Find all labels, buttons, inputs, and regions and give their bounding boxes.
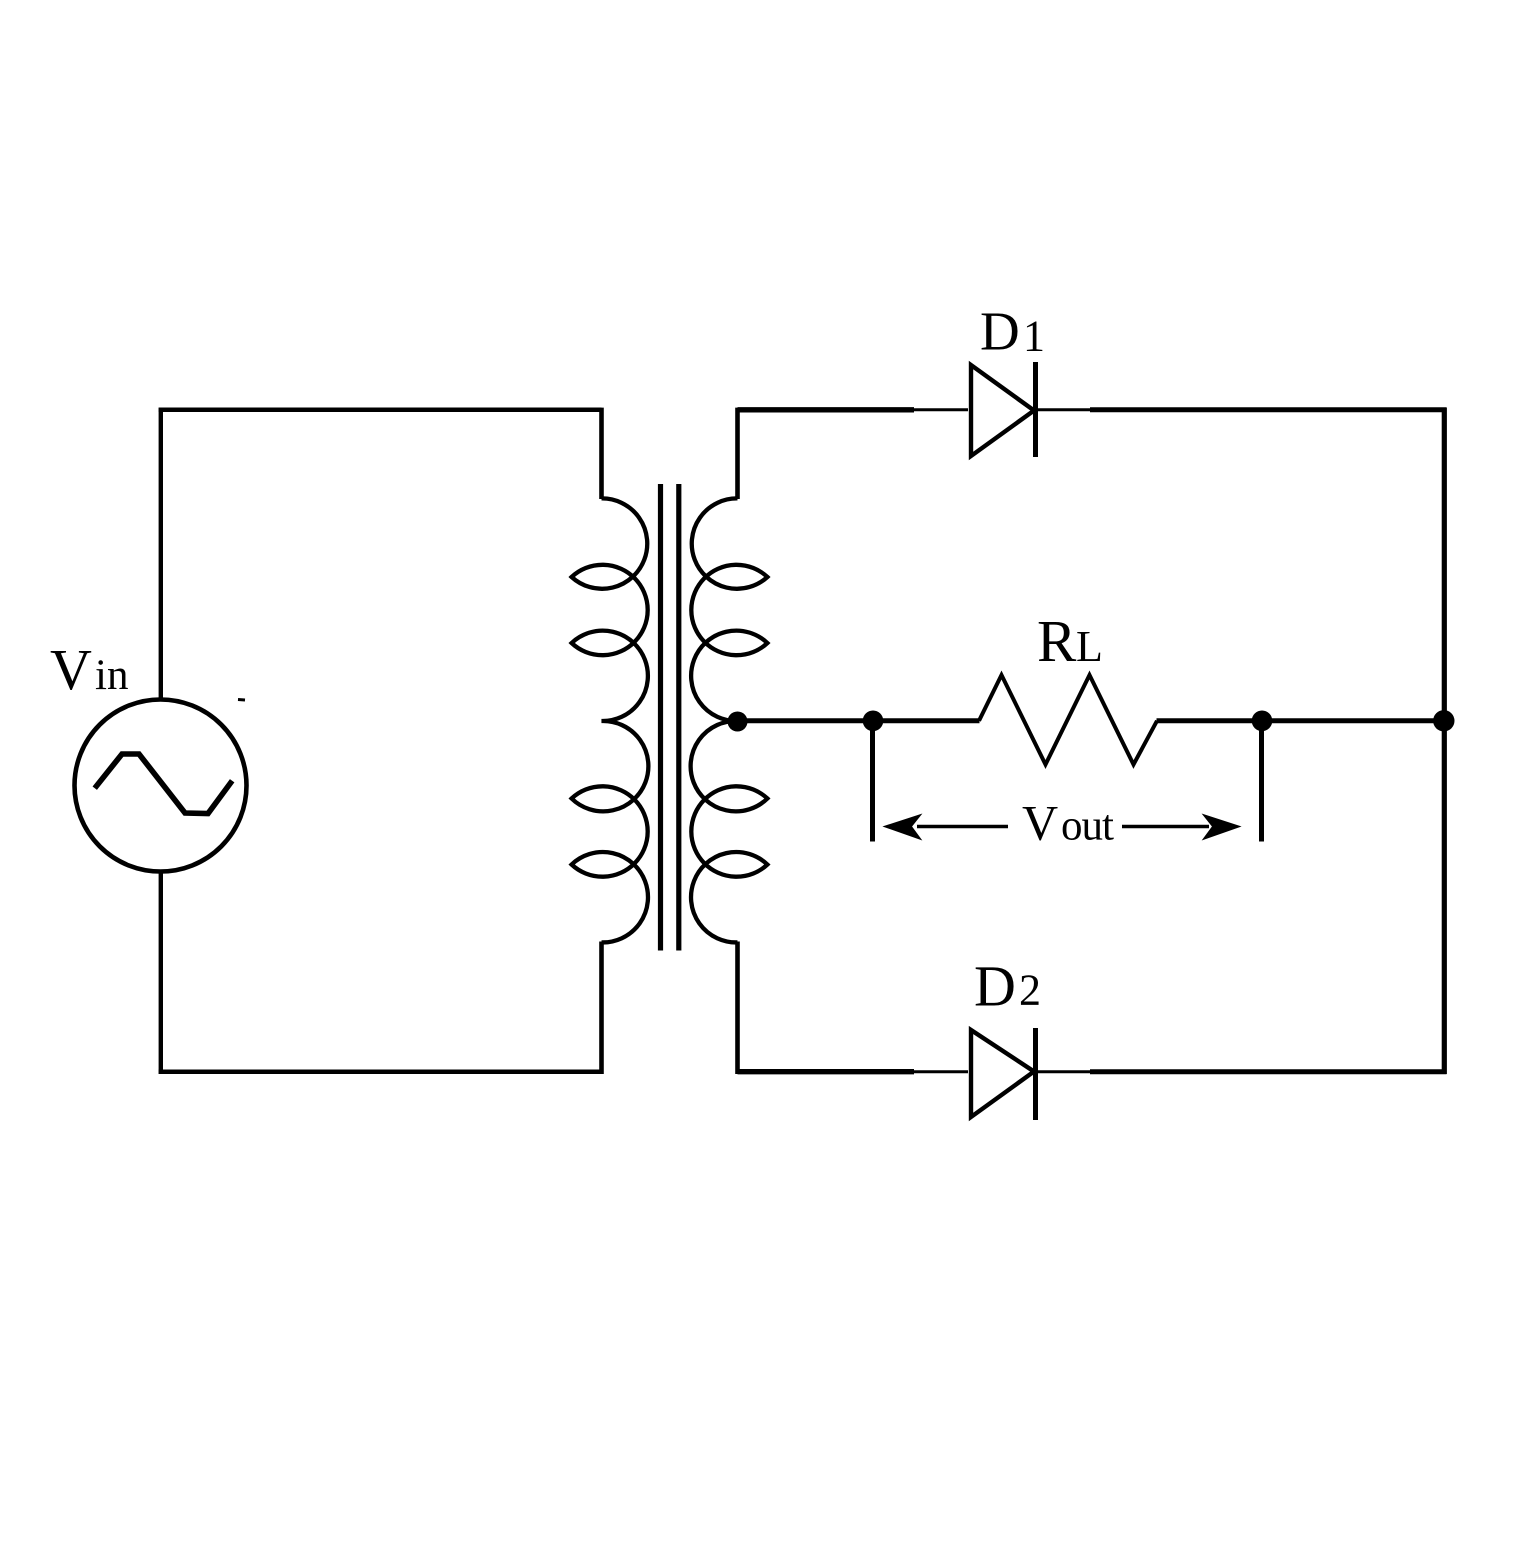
junction: node C (right rail) [1433, 710, 1454, 731]
svg-text:D: D [980, 301, 1020, 362]
wire: D2 cathode to bottom-right corner [1037, 1070, 1447, 1073]
svg-text:D: D [974, 954, 1016, 1019]
wire: node A to resistor RL [873, 718, 980, 723]
label RL [1037, 608, 1103, 674]
wire: secondary bottom to D2 anode [738, 1069, 969, 1074]
wire: primary top lead [599, 408, 604, 499]
junction: center tap node [728, 712, 748, 732]
wire: bottom-left horizontal (source to primary) [159, 1069, 602, 1074]
Vout measurement tick left [870, 721, 875, 842]
svg-text:2: 2 [1019, 966, 1041, 1015]
svg-text:L: L [1076, 622, 1103, 671]
Vout measurement tick right [1259, 721, 1264, 842]
diode D2 [971, 1028, 1036, 1120]
resistor RL [979, 675, 1157, 765]
wire: primary bottom lead [599, 942, 604, 1075]
wire: resistor RL to node B [1157, 718, 1263, 723]
label D2 [974, 954, 1041, 1019]
svg-text:V: V [1022, 795, 1058, 851]
wire: center tap to output node A [738, 718, 874, 723]
label Vout with dimension arrows [884, 795, 1240, 851]
ac source Vin [75, 700, 247, 872]
transformer T1 secondary winding [691, 498, 768, 942]
svg-text:V: V [50, 637, 92, 702]
wire: secondary top to D1 anode [738, 407, 969, 412]
transformer T1 primary winding [572, 498, 649, 942]
label Vin [50, 637, 128, 702]
svg-text:1: 1 [1023, 312, 1045, 361]
wire: left vertical lower (source to bottom wire) [159, 871, 163, 1074]
svg-text:R: R [1037, 608, 1077, 674]
wire: top-left horizontal (source to primary) [159, 408, 602, 413]
wire: left vertical upper (top wire to Vin source) [159, 408, 163, 700]
junction: node A (left output node) [863, 711, 884, 732]
wire: right vertical [1442, 408, 1447, 1074]
wire: node B to right vertical [1262, 718, 1444, 723]
label D1 [980, 301, 1045, 362]
svg-text:in: in [95, 652, 128, 699]
wire: D1 cathode to top-right corner [1037, 408, 1447, 411]
wire: secondary bottom lead [735, 942, 740, 1075]
wire: secondary top lead [735, 408, 740, 499]
transformer T1 core [661, 484, 679, 951]
junction: node B (right output node) [1252, 711, 1273, 732]
diode D1 [971, 362, 1036, 457]
svg-text:out: out [1061, 803, 1114, 850]
